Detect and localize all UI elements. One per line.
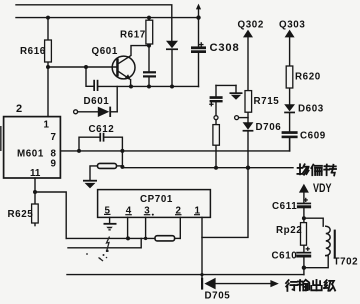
svg-text:C609: C609 xyxy=(300,131,326,142)
svg-text:VDY: VDY xyxy=(313,183,332,195)
svg-text:C308: C308 xyxy=(210,42,240,54)
svg-text:2: 2 xyxy=(176,206,182,217)
svg-text:D705: D705 xyxy=(205,291,231,302)
svg-text:5: 5 xyxy=(105,205,111,216)
svg-text:C610: C610 xyxy=(272,251,298,262)
svg-text:1: 1 xyxy=(44,120,50,131)
svg-text:9: 9 xyxy=(51,159,57,170)
svg-text:D601: D601 xyxy=(84,96,110,107)
svg-text:CP701: CP701 xyxy=(140,194,173,205)
svg-text:Q303: Q303 xyxy=(279,20,305,31)
svg-text:1: 1 xyxy=(195,206,201,217)
svg-text:Rp22: Rp22 xyxy=(276,225,302,236)
svg-text:D706: D706 xyxy=(256,122,282,133)
svg-text:11: 11 xyxy=(30,168,41,179)
svg-text:3: 3 xyxy=(144,206,150,217)
svg-text:C611: C611 xyxy=(272,201,297,212)
svg-text:M601: M601 xyxy=(17,149,44,160)
svg-text:7: 7 xyxy=(51,132,57,143)
svg-text:R625: R625 xyxy=(8,209,34,220)
svg-text:D603: D603 xyxy=(298,104,324,115)
svg-text:Q601: Q601 xyxy=(92,46,118,57)
svg-text:4: 4 xyxy=(126,206,132,217)
svg-text:R617: R617 xyxy=(120,30,146,41)
svg-text:T702: T702 xyxy=(334,257,359,268)
svg-text:R620: R620 xyxy=(295,72,321,83)
svg-text:C612: C612 xyxy=(89,124,115,135)
svg-text:R715: R715 xyxy=(254,96,280,107)
svg-text:Q302: Q302 xyxy=(238,20,264,31)
svg-text:R616: R616 xyxy=(20,46,46,57)
svg-text:2: 2 xyxy=(16,103,22,115)
